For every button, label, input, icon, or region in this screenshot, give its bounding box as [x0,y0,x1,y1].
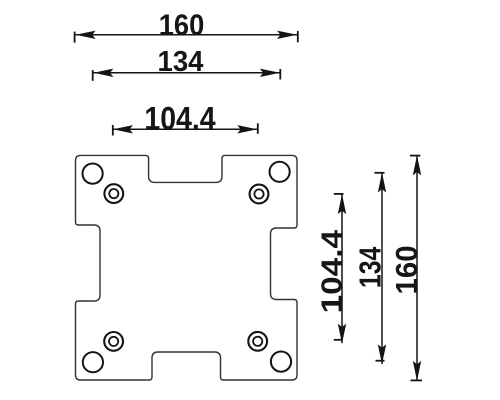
dimension 134 horizontal [93,44,281,80]
dimension 104.4 vertical [316,194,348,344]
hole BL (plain) [83,352,103,372]
hole BR (plain) [271,352,291,372]
dimension 160 vertical [390,155,424,381]
dimension 160 horizontal [75,9,298,43]
svg-text:134: 134 [353,246,387,288]
hole TL (plain) [83,164,103,184]
svg-text:104.4: 104.4 [144,102,215,137]
dimension 134 vertical [353,173,387,365]
hole TR (plain) [270,162,290,182]
dimension 104.4 horizontal [113,102,258,137]
svg-text:160: 160 [159,9,205,42]
counterbore hole TR (double circle) [250,185,269,204]
plate outline [76,155,298,380]
counterbore hole BR (double circle) [248,332,267,351]
svg-text:160: 160 [390,245,424,294]
counterbore hole TL (double circle) [104,184,123,203]
svg-text:104.4: 104.4 [316,229,348,313]
counterbore hole BL (double circle) [104,332,123,351]
svg-text:134: 134 [158,44,204,77]
